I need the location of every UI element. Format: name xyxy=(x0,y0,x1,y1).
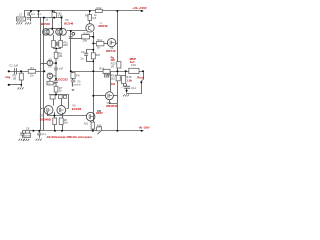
svg-text:C7: C7 xyxy=(19,12,23,16)
svg-text:431: 431 xyxy=(111,82,116,86)
svg-text:IRF9540: IRF9540 xyxy=(106,104,117,108)
svg-text:0.1: 0.1 xyxy=(37,12,41,16)
svg-text:1k5: 1k5 xyxy=(64,122,69,125)
svg-text:47n: 47n xyxy=(76,75,81,78)
svg-text:1u: 1u xyxy=(81,56,84,60)
svg-text:A51: A51 xyxy=(84,122,89,125)
svg-text:10R: 10R xyxy=(106,74,111,77)
svg-text:ECC83: ECC83 xyxy=(58,77,68,81)
svg-text:1R: 1R xyxy=(111,64,114,68)
svg-text:1u: 1u xyxy=(27,17,30,21)
svg-text:Rout: Rout xyxy=(137,75,144,79)
svg-text:10k: 10k xyxy=(83,38,88,42)
svg-text:R12: R12 xyxy=(97,6,102,10)
svg-text:1uF: 1uF xyxy=(59,67,64,71)
svg-text:R16: R16 xyxy=(99,67,104,71)
svg-text:Alle Widerstande 1/8W falls ni: Alle Widerstande 1/8W falls nicht anders xyxy=(47,135,93,139)
svg-text:BC546: BC546 xyxy=(41,22,50,26)
svg-text:C8: C8 xyxy=(26,127,30,131)
svg-text:63V: 63V xyxy=(63,43,68,47)
svg-text:BC546B: BC546B xyxy=(40,118,51,122)
svg-text:IRF740: IRF740 xyxy=(106,49,116,53)
svg-text:R19: R19 xyxy=(97,124,102,127)
svg-text:10uF/63V: 10uF/63V xyxy=(71,84,81,86)
svg-text:-Ub -150V: -Ub -150V xyxy=(138,126,150,130)
svg-text:R15: R15 xyxy=(96,55,101,57)
svg-text:20mH: 20mH xyxy=(24,136,30,138)
svg-text:4u7: 4u7 xyxy=(130,60,135,64)
svg-text:1k5: 1k5 xyxy=(92,17,97,20)
svg-text:C11: C11 xyxy=(131,86,136,90)
svg-text:0.1: 0.1 xyxy=(31,12,35,16)
svg-text:1.5k: 1.5k xyxy=(126,79,132,83)
svg-text:220: 220 xyxy=(111,59,116,62)
svg-text:ECC83: ECC83 xyxy=(72,107,82,111)
svg-text:C1 1uF: C1 1uF xyxy=(9,63,18,67)
svg-text:+Ub +150V: +Ub +150V xyxy=(132,6,147,10)
svg-text:20mH: 20mH xyxy=(17,18,24,21)
svg-text:BC546: BC546 xyxy=(64,21,73,25)
svg-text:neg: neg xyxy=(5,75,10,79)
svg-text:BD139: BD139 xyxy=(99,24,108,28)
svg-text:1k2: 1k2 xyxy=(111,77,116,81)
svg-text:7.5k: 7.5k xyxy=(58,14,64,18)
svg-text:1M: 1M xyxy=(30,75,33,78)
svg-text:R1: R1 xyxy=(30,66,34,70)
svg-text:R11: R11 xyxy=(97,38,102,42)
svg-text:R10: R10 xyxy=(84,31,89,35)
svg-text:C4: C4 xyxy=(81,50,85,54)
svg-text:V6B: V6B xyxy=(97,111,102,113)
